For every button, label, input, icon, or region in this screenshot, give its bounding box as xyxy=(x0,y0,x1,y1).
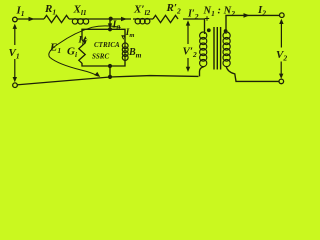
terminal bottom-left xyxy=(13,83,18,88)
inductor X'_l2 xyxy=(133,19,153,24)
current arrow after node xyxy=(121,17,127,22)
voltage arrow V1 (double headed) xyxy=(14,27,16,80)
bottom rail junction dot xyxy=(108,75,112,79)
transformer primary winding xyxy=(200,31,207,67)
shunt top bar junction dot xyxy=(108,27,112,31)
resistor R'2 xyxy=(153,15,178,22)
transformer secondary winding xyxy=(223,31,230,67)
terminal top-left xyxy=(13,17,18,22)
current arrow I2 on wire xyxy=(244,13,250,18)
terminal bottom-right xyxy=(279,79,284,84)
wire R'2 to primary corner xyxy=(183,19,205,31)
wire shunt top bar xyxy=(82,29,125,43)
voltage arrow V2 (double headed) xyxy=(280,22,282,77)
wire top rail right segment xyxy=(226,15,280,31)
current arrow I1 on wire xyxy=(29,17,35,22)
transformer core xyxy=(214,27,221,70)
watermark xyxy=(92,41,120,61)
wire primary coil bottom bend xyxy=(200,67,205,77)
svg-text:SSRC: SSRC xyxy=(92,53,109,61)
svg-text:N1 : N2: N1 : N2 xyxy=(203,6,236,18)
wire shunt bottom bar xyxy=(82,60,125,66)
node junction dot xyxy=(109,17,113,21)
wire shunt bar to bottom rail xyxy=(109,66,111,77)
terminal top-right xyxy=(280,13,285,18)
wire node to X'_l2 xyxy=(110,18,131,20)
wire bottom rail left xyxy=(15,76,199,85)
inductor X_l1 xyxy=(69,19,92,24)
transformer polarity dot primary xyxy=(207,28,211,32)
current arrow I0 xyxy=(108,23,112,28)
transformer polarity dot secondary xyxy=(224,29,228,33)
voltage arrow V'2 (double headed) xyxy=(187,23,189,44)
susceptance B_m coil xyxy=(122,43,128,61)
wire top rail left segment xyxy=(17,18,44,20)
wire X_l1 to node xyxy=(92,18,110,20)
svg-text:CTRICA: CTRICA xyxy=(94,41,120,49)
wire shunt node to top bar xyxy=(109,19,111,29)
resistor R1 xyxy=(44,15,69,22)
shunt bottom bar junction dot xyxy=(108,64,112,68)
conductance G_i zigzag xyxy=(79,40,85,63)
curved arrow around excitation branch xyxy=(49,26,121,76)
current arrow Ii xyxy=(83,36,87,44)
current arrow Im xyxy=(121,35,125,40)
wire secondary coil bottom bend xyxy=(226,66,279,81)
plus polarity mark xyxy=(205,16,209,20)
